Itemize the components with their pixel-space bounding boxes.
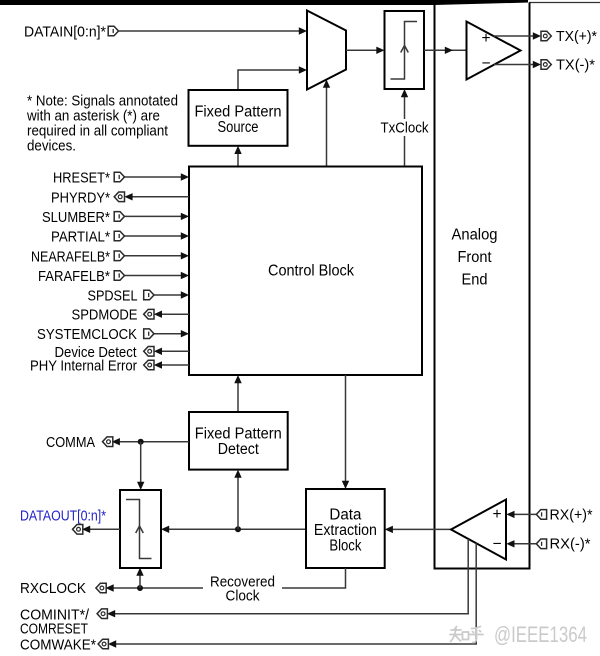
wire RX(+) [510,513,536,515]
wire fixed pattern detect to control block [237,379,239,412]
wire NEARAFELB [124,255,185,257]
svg-text:COMRESET: COMRESET [20,621,88,638]
wire RX amp to data extraction block [388,528,451,530]
wire TX(-) [494,64,537,66]
svg-text:Front: Front [458,249,493,266]
pad DATAIN [108,26,118,36]
top black bar [0,0,528,5]
pad PHY Internal Error [144,360,154,370]
pad SYSTEMCLOCK [144,329,154,339]
wire PHY Internal Error [157,364,189,366]
pad FARAFELB [114,271,124,281]
svg-text:COMMA: COMMA [46,434,95,451]
svg-text:Source: Source [218,119,259,136]
label TxClock [378,119,431,136]
wire COMMA from fixed pattern detect [115,441,189,443]
pad COMMA [103,437,113,447]
svg-text:Analog: Analog [452,226,498,243]
pad COMWAKE [98,639,108,649]
pad RX(+) [536,510,546,520]
op-amp TX driver [467,22,521,80]
wire SLUMBER [124,215,185,217]
wire mux select from control block [326,84,328,167]
pad TX(+) [541,31,551,41]
deserializer U5 [120,490,161,568]
svg-text:TX(+)*: TX(+)* [556,28,597,45]
svg-text:+: + [493,506,502,523]
wire PHYRDY [128,196,189,198]
pad SLUMBER [114,212,124,222]
wire SPDSEL [153,294,185,296]
fixed pattern detect U4 [189,412,288,470]
wire PARTIAL [124,235,185,237]
svg-text:COMWAKE*: COMWAKE* [20,637,96,654]
pad PHYRDY [114,192,124,202]
op-amp RX receiver [451,500,506,560]
top thin border line right [529,2,600,4]
wire deserializer to DATAOUT [85,528,120,530]
wire COMINIT/COMRESET from RX amp [111,539,469,614]
svg-text:SPDMODE: SPDMODE [72,307,138,324]
fixed pattern source U2 [189,90,288,146]
wire TX(+) [494,35,538,37]
wire HRESET [124,176,185,178]
wire DATAIN to mux [119,30,303,32]
junction data to FPD [235,526,241,532]
wire recovered clock [109,568,346,588]
wire data extraction to deserializer [164,528,306,530]
junction comma [138,439,144,445]
svg-text:TxClock: TxClock [381,120,429,137]
svg-text:SPDSEL: SPDSEL [88,288,138,305]
pad SPDSEL [144,290,154,300]
svg-text:−: − [493,535,502,552]
wire serializer to TX amp [424,49,467,51]
junction rxclock [137,585,143,591]
wire TxClock to serializer [404,93,406,167]
svg-text:PHY Internal Error: PHY Internal Error [30,358,137,375]
pad COMINIT [97,609,107,619]
wire FARAFELB [124,275,185,277]
data extraction block U6 [306,489,385,568]
svg-text:Clock: Clock [226,588,260,605]
wire junction down to deserializer [140,442,142,485]
pad DATAOUT [73,525,83,535]
wire SYSTEMCLOCK [153,333,185,335]
watermark zhihu [450,627,483,643]
svg-text:PARTIAL*: PARTIAL* [51,229,110,246]
svg-text:DATAIN[0:n]*: DATAIN[0:n]* [24,24,106,41]
svg-text:−: − [482,55,491,72]
svg-text:DATAOUT[0:n]*: DATAOUT[0:n]* [20,508,106,525]
pad RXCLOCK [96,583,106,593]
svg-text:RXCLOCK: RXCLOCK [20,580,86,597]
pad HRESET [114,172,124,182]
svg-text:FARAFELB*: FARAFELB* [38,268,110,285]
svg-text:RX(+)*: RX(+)* [550,506,593,523]
svg-text:devices.: devices. [27,138,76,155]
pad SPDMODE [144,309,154,319]
svg-text:Detect: Detect [218,441,260,458]
svg-text:RX(-)*: RX(-)* [550,536,591,553]
svg-text:Block: Block [329,537,361,554]
analog front end box [435,3,530,569]
svg-text:SYSTEMCLOCK: SYSTEMCLOCK [37,326,137,343]
svg-text:SLUMBER*: SLUMBER* [42,209,110,226]
svg-text:NEARAFELB*: NEARAFELB* [31,248,110,265]
pad PARTIAL [114,231,124,241]
pad Device Detect [144,347,154,357]
wire junction up to deserializer clock [139,571,141,588]
svg-text:@IEEE1364: @IEEE1364 [494,622,587,647]
svg-text:TX(-)*: TX(-)* [556,56,595,73]
svg-text:Control Block: Control Block [268,263,354,280]
wire mux to serializer [346,49,380,51]
svg-text:+: + [482,30,491,47]
svg-text:End: End [462,271,488,288]
serializer U1 [385,11,425,89]
mux M1 [307,11,346,90]
wire fixed pattern source to mux [238,70,303,90]
svg-text:HRESET*: HRESET* [53,170,110,187]
wire COMWAKE from RX amp [112,543,477,644]
pad NEARAFELB [114,251,124,261]
wire RX(-) [510,543,536,545]
wire SPDMODE [157,313,189,315]
svg-text:PHYRDY*: PHYRDY* [51,189,110,206]
wire junction up to fixed pattern detect [237,473,239,529]
control block U3 [189,167,422,376]
pad TX(-) [541,60,551,70]
wire control block to fixed pattern source [237,150,239,167]
wire control block to data extraction block [345,375,347,485]
wire Device Detect [157,350,189,352]
pad RX(-) [536,539,546,549]
svg-text:Fixed Pattern: Fixed Pattern [195,104,282,121]
label Recovered Clock [203,574,282,602]
